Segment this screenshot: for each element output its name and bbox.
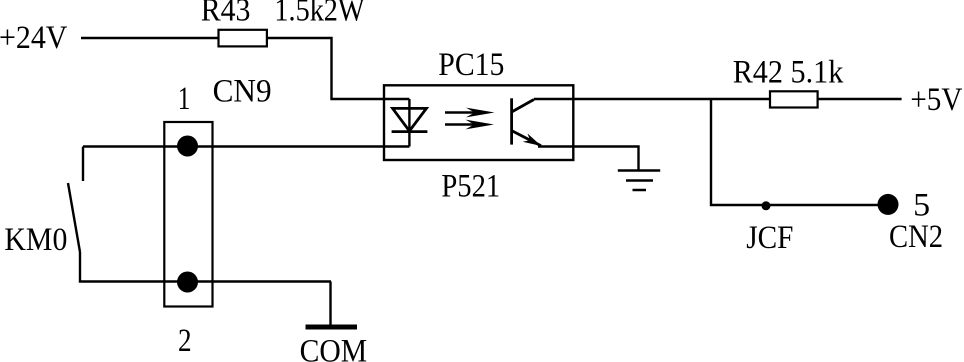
svg-text:R42 5.1k: R42 5.1k [733, 54, 844, 90]
svg-text:P521: P521 [441, 169, 500, 205]
svg-text:R43: R43 [201, 0, 251, 29]
svg-text:CN9: CN9 [213, 74, 272, 110]
svg-text:JCF: JCF [746, 220, 793, 256]
svg-text:PC15: PC15 [438, 47, 504, 83]
svg-text:CN2: CN2 [889, 219, 943, 255]
svg-text:+5V: +5V [910, 82, 962, 118]
svg-text:1.5k2W: 1.5k2W [274, 0, 365, 29]
svg-text:KM0: KM0 [4, 222, 67, 258]
svg-text:COM: COM [300, 334, 368, 362]
svg-text:1: 1 [178, 81, 191, 117]
svg-text:+24V: +24V [0, 20, 68, 56]
svg-text:2: 2 [178, 323, 192, 359]
